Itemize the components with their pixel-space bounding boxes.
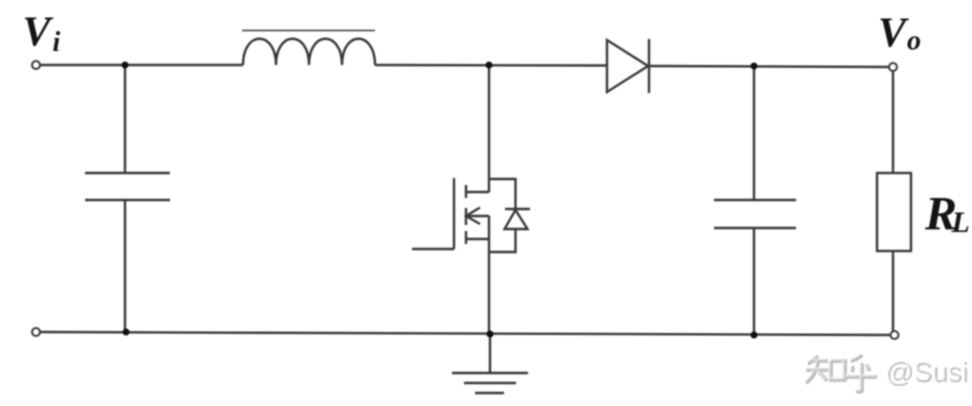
svg-text:i: i xyxy=(53,27,61,58)
svg-text:V: V xyxy=(23,10,54,56)
svg-text:V: V xyxy=(878,11,909,57)
svg-text:o: o xyxy=(907,26,921,57)
svg-text:@Susi: @Susi xyxy=(884,355,967,386)
svg-text:L: L xyxy=(951,206,970,239)
